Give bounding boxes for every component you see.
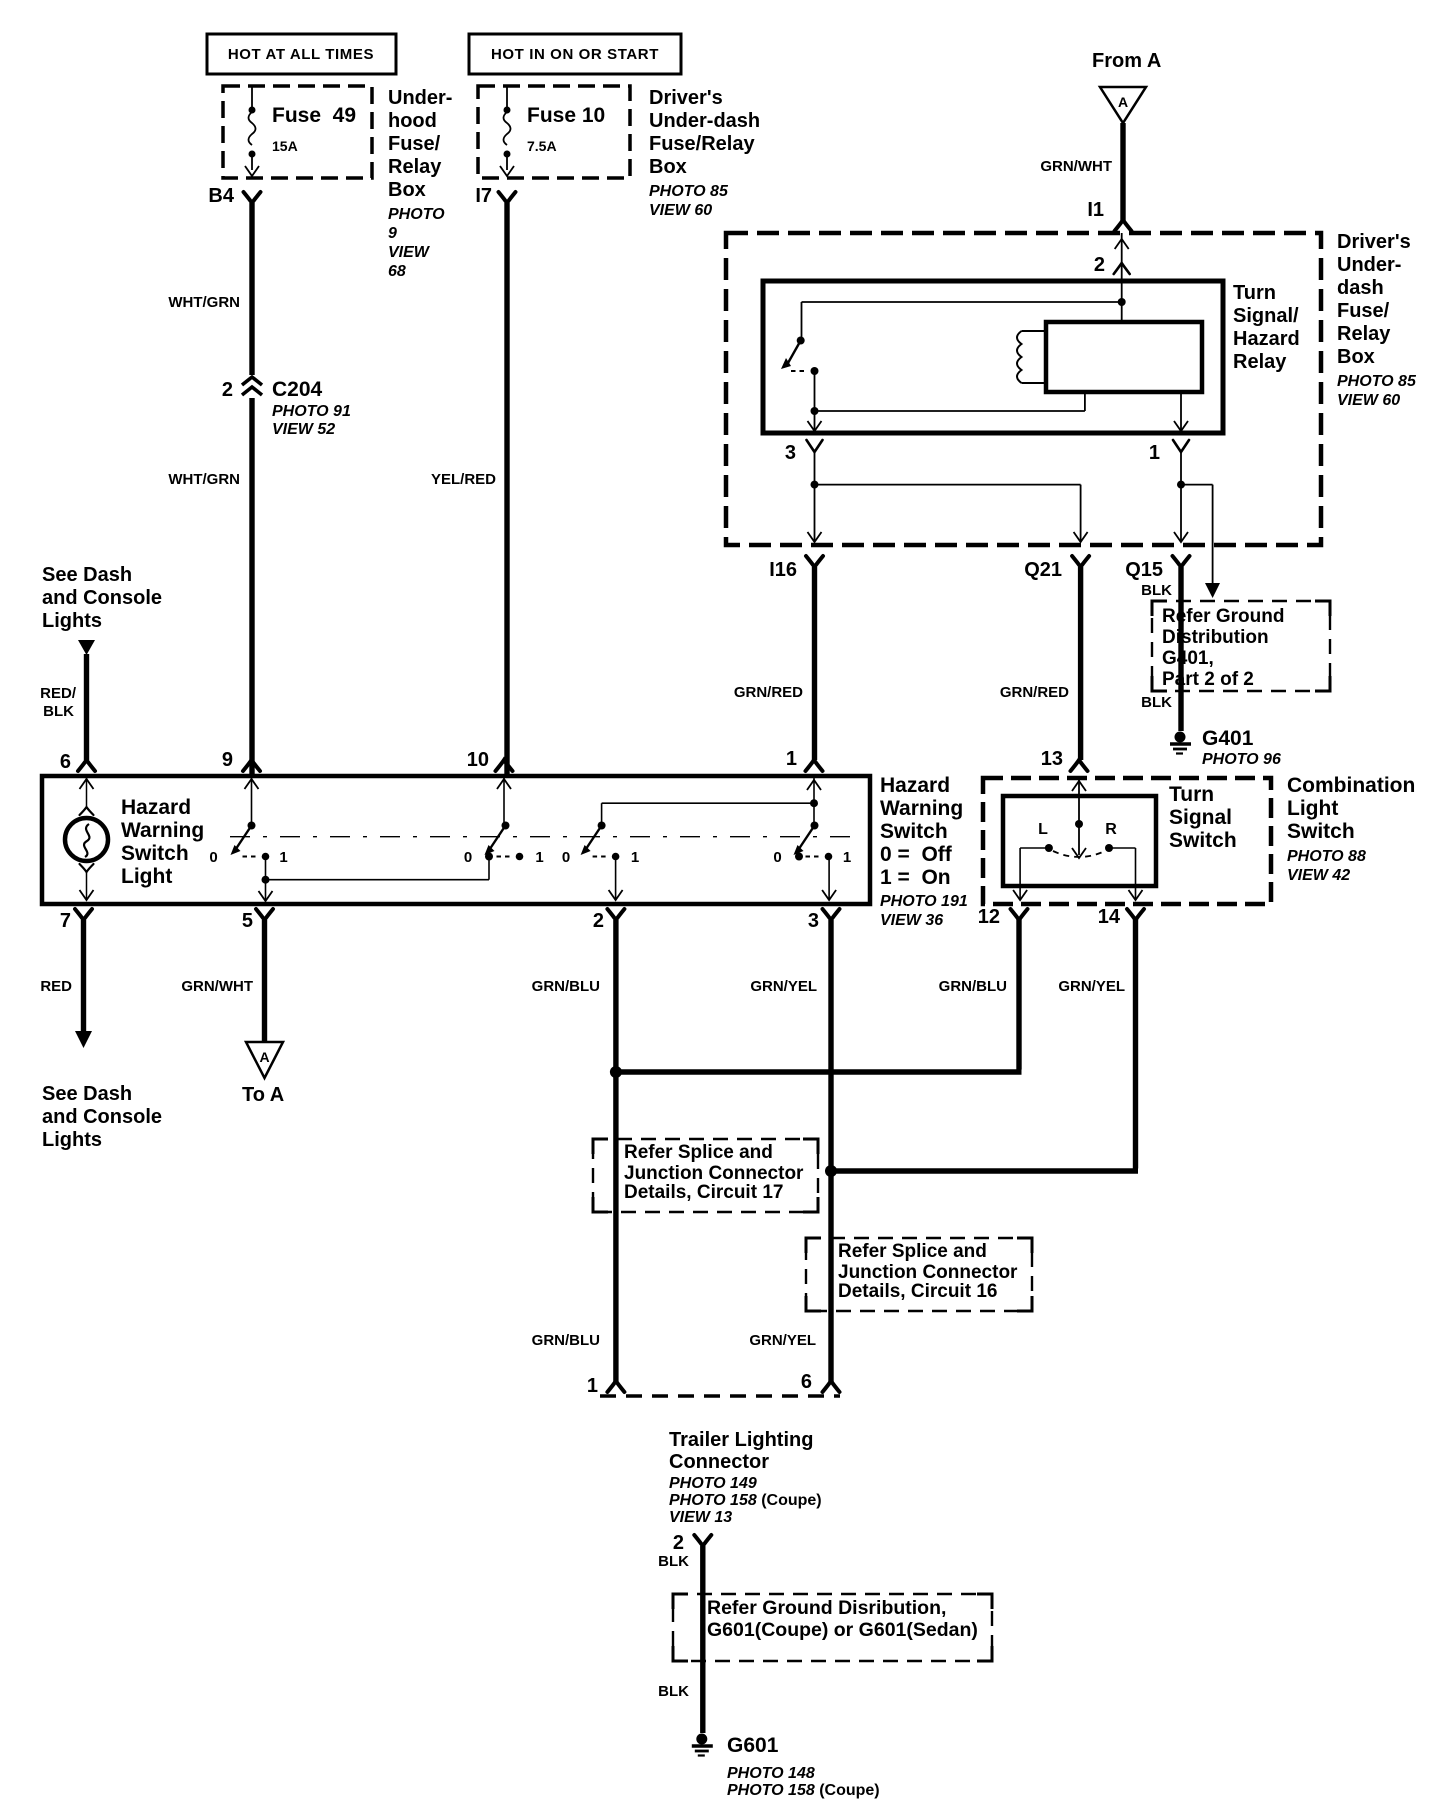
svg-text:7: 7: [60, 910, 71, 932]
svg-text:Signal/: Signal/: [1233, 305, 1299, 327]
svg-text:1 = On: 1 = On: [880, 866, 951, 889]
svg-text:1: 1: [535, 849, 543, 866]
svg-text:I1: I1: [1087, 199, 1104, 221]
svg-text:Hazard: Hazard: [1233, 328, 1300, 350]
svg-text:1: 1: [631, 849, 639, 866]
svg-text:RED: RED: [40, 978, 72, 995]
svg-text:Distribution: Distribution: [1162, 627, 1269, 648]
svg-text:15A: 15A: [272, 138, 298, 154]
svg-text:BLK: BLK: [658, 1553, 689, 1570]
svg-text:BLK: BLK: [43, 703, 74, 720]
svg-text:Under-dash: Under-dash: [649, 110, 760, 132]
svg-text:Light: Light: [1287, 797, 1338, 820]
svg-text:PHOTO 158 (Coupe): PHOTO 158 (Coupe): [669, 1492, 822, 1509]
svg-text:0: 0: [773, 849, 781, 866]
svg-text:Junction Connector: Junction Connector: [624, 1163, 804, 1184]
svg-text:9: 9: [388, 225, 397, 242]
svg-text:Trailer Lighting: Trailer Lighting: [669, 1429, 813, 1451]
svg-text:7.5A: 7.5A: [527, 138, 557, 154]
svg-text:Details, Circuit 16: Details, Circuit 16: [838, 1281, 997, 1302]
svg-text:68: 68: [388, 263, 406, 280]
svg-text:0: 0: [562, 849, 570, 866]
svg-text:Fuse 49: Fuse 49: [272, 104, 356, 127]
svg-text:VIEW 13: VIEW 13: [669, 1509, 732, 1526]
svg-text:PHOTO 85: PHOTO 85: [649, 183, 729, 200]
svg-text:Box: Box: [649, 156, 687, 178]
svg-text:PHOTO 149: PHOTO 149: [669, 1475, 757, 1492]
svg-text:Lights: Lights: [42, 610, 102, 632]
svg-text:3: 3: [808, 910, 819, 932]
svg-text:1: 1: [587, 1375, 598, 1397]
svg-text:Switch: Switch: [1169, 829, 1237, 852]
svg-text:Refer Splice and: Refer Splice and: [838, 1241, 987, 1262]
svg-text:and Console: and Console: [42, 1106, 162, 1128]
svg-text:Junction Connector: Junction Connector: [838, 1262, 1018, 1283]
svg-text:See Dash: See Dash: [42, 564, 132, 586]
svg-text:0: 0: [464, 849, 472, 866]
svg-text:Refer Splice and: Refer Splice and: [624, 1142, 773, 1163]
svg-text:VIEW: VIEW: [388, 244, 431, 261]
svg-text:I7: I7: [475, 185, 492, 207]
svg-text:Box: Box: [388, 179, 426, 201]
svg-text:hood: hood: [388, 110, 437, 132]
svg-text:2: 2: [673, 1532, 684, 1554]
svg-text:Driver's: Driver's: [649, 87, 723, 109]
svg-text:Connector: Connector: [669, 1451, 769, 1473]
svg-text:Hazard: Hazard: [121, 796, 191, 819]
svg-text:Warning: Warning: [121, 819, 204, 842]
svg-text:C204: C204: [272, 378, 323, 401]
svg-text:BLK: BLK: [658, 1683, 689, 1700]
svg-text:6: 6: [801, 1371, 812, 1393]
svg-text:Signal: Signal: [1169, 806, 1232, 829]
svg-text:Turn: Turn: [1169, 783, 1214, 806]
svg-text:GRN/RED: GRN/RED: [734, 684, 803, 701]
svg-text:GRN/WHT: GRN/WHT: [181, 978, 253, 995]
svg-text:Under-: Under-: [1337, 254, 1401, 276]
svg-text:HOT AT ALL TIMES: HOT AT ALL TIMES: [228, 46, 374, 63]
svg-text:GRN/YEL: GRN/YEL: [1058, 978, 1125, 995]
svg-text:GRN/WHT: GRN/WHT: [1040, 158, 1112, 175]
svg-text:Fuse/: Fuse/: [1337, 300, 1390, 322]
svg-text:and Console: and Console: [42, 587, 162, 609]
svg-text:VIEW 60: VIEW 60: [649, 202, 712, 219]
svg-text:Details, Circuit 17: Details, Circuit 17: [624, 1182, 783, 1203]
svg-text:GRN/YEL: GRN/YEL: [750, 978, 817, 995]
svg-text:BLK: BLK: [1141, 694, 1172, 711]
svg-text:PHOTO: PHOTO: [388, 206, 445, 223]
svg-text:Fuse 10: Fuse 10: [527, 104, 605, 127]
svg-text:GRN/BLU: GRN/BLU: [532, 1332, 600, 1349]
svg-text:Fuse/: Fuse/: [388, 133, 441, 155]
svg-text:Hazard: Hazard: [880, 774, 950, 797]
svg-text:To A: To A: [242, 1084, 284, 1106]
svg-text:PHOTO 91: PHOTO 91: [272, 403, 351, 420]
svg-text:Combination: Combination: [1287, 774, 1415, 797]
svg-text:GRN/BLU: GRN/BLU: [939, 978, 1007, 995]
svg-text:VIEW 42: VIEW 42: [1287, 867, 1350, 884]
svg-text:Lights: Lights: [42, 1129, 102, 1151]
svg-text:G601: G601: [727, 1734, 779, 1757]
svg-text:Switch: Switch: [880, 820, 948, 843]
svg-text:From A: From A: [1092, 50, 1161, 72]
svg-text:Refer Ground Disribution,: Refer Ground Disribution,: [707, 1597, 946, 1619]
svg-text:Relay: Relay: [1337, 323, 1391, 345]
svg-text:Q21: Q21: [1024, 559, 1062, 581]
svg-text:dash: dash: [1337, 277, 1384, 299]
svg-text:Switch: Switch: [1287, 820, 1355, 843]
svg-text:14: 14: [1098, 906, 1121, 928]
svg-text:A: A: [259, 1049, 269, 1065]
svg-text:Light: Light: [121, 865, 172, 888]
svg-text:Fuse/Relay: Fuse/Relay: [649, 133, 755, 155]
svg-text:RED/: RED/: [40, 685, 77, 702]
svg-text:6: 6: [60, 751, 71, 773]
svg-text:3: 3: [785, 442, 796, 464]
svg-text:12: 12: [978, 906, 1000, 928]
svg-text:VIEW 36: VIEW 36: [880, 912, 943, 929]
svg-text:GRN/BLU: GRN/BLU: [532, 978, 600, 995]
svg-text:PHOTO 85: PHOTO 85: [1337, 373, 1417, 390]
svg-text:2: 2: [222, 379, 233, 401]
svg-text:1: 1: [786, 748, 797, 770]
svg-text:Switch: Switch: [121, 842, 189, 865]
svg-text:BLK: BLK: [1141, 582, 1172, 599]
svg-text:VIEW 60: VIEW 60: [1337, 392, 1400, 409]
svg-text:Warning: Warning: [880, 797, 963, 820]
svg-text:R: R: [1105, 821, 1117, 838]
svg-text:YEL/RED: YEL/RED: [431, 471, 496, 488]
svg-text:Turn: Turn: [1233, 282, 1276, 304]
svg-text:1: 1: [843, 849, 851, 866]
svg-text:PHOTO 191: PHOTO 191: [880, 893, 968, 910]
svg-text:0 = Off: 0 = Off: [880, 843, 953, 866]
svg-text:VIEW 52: VIEW 52: [272, 421, 335, 438]
svg-text:WHT/GRN: WHT/GRN: [168, 294, 240, 311]
svg-text:WHT/GRN: WHT/GRN: [168, 471, 240, 488]
svg-text:See Dash: See Dash: [42, 1083, 132, 1105]
svg-text:PHOTO 158 (Coupe): PHOTO 158 (Coupe): [727, 1782, 880, 1799]
svg-text:Box: Box: [1337, 346, 1375, 368]
svg-text:PHOTO 88: PHOTO 88: [1287, 848, 1366, 865]
svg-text:HOT IN ON OR START: HOT IN ON OR START: [491, 46, 659, 63]
svg-text:I16: I16: [769, 559, 797, 581]
svg-text:PHOTO 148: PHOTO 148: [727, 1765, 815, 1782]
svg-text:GRN/RED: GRN/RED: [1000, 684, 1069, 701]
svg-text:2: 2: [1094, 254, 1105, 276]
svg-text:Relay: Relay: [1233, 351, 1287, 373]
svg-text:B4: B4: [208, 185, 234, 207]
svg-text:L: L: [1038, 821, 1048, 838]
svg-text:1: 1: [1149, 442, 1160, 464]
svg-text:10: 10: [467, 749, 489, 771]
svg-text:5: 5: [242, 910, 253, 932]
svg-text:Under-: Under-: [388, 87, 452, 109]
svg-text:Q15: Q15: [1125, 559, 1163, 581]
svg-text:13: 13: [1041, 748, 1063, 770]
svg-text:GRN/YEL: GRN/YEL: [749, 1332, 816, 1349]
svg-text:G401: G401: [1202, 727, 1254, 750]
svg-text:Refer Ground: Refer Ground: [1162, 606, 1284, 627]
svg-text:Relay: Relay: [388, 156, 442, 178]
svg-text:G601(Coupe) or G601(Sedan): G601(Coupe) or G601(Sedan): [707, 1619, 978, 1641]
svg-text:9: 9: [222, 749, 233, 771]
svg-text:1: 1: [279, 849, 287, 866]
svg-text:A: A: [1118, 94, 1128, 110]
svg-text:PHOTO 96: PHOTO 96: [1202, 751, 1281, 768]
svg-text:2: 2: [593, 910, 604, 932]
svg-text:Part 2 of 2: Part 2 of 2: [1162, 669, 1254, 690]
svg-text:Driver's: Driver's: [1337, 231, 1411, 253]
svg-text:G401,: G401,: [1162, 648, 1214, 669]
svg-text:0: 0: [209, 849, 217, 866]
